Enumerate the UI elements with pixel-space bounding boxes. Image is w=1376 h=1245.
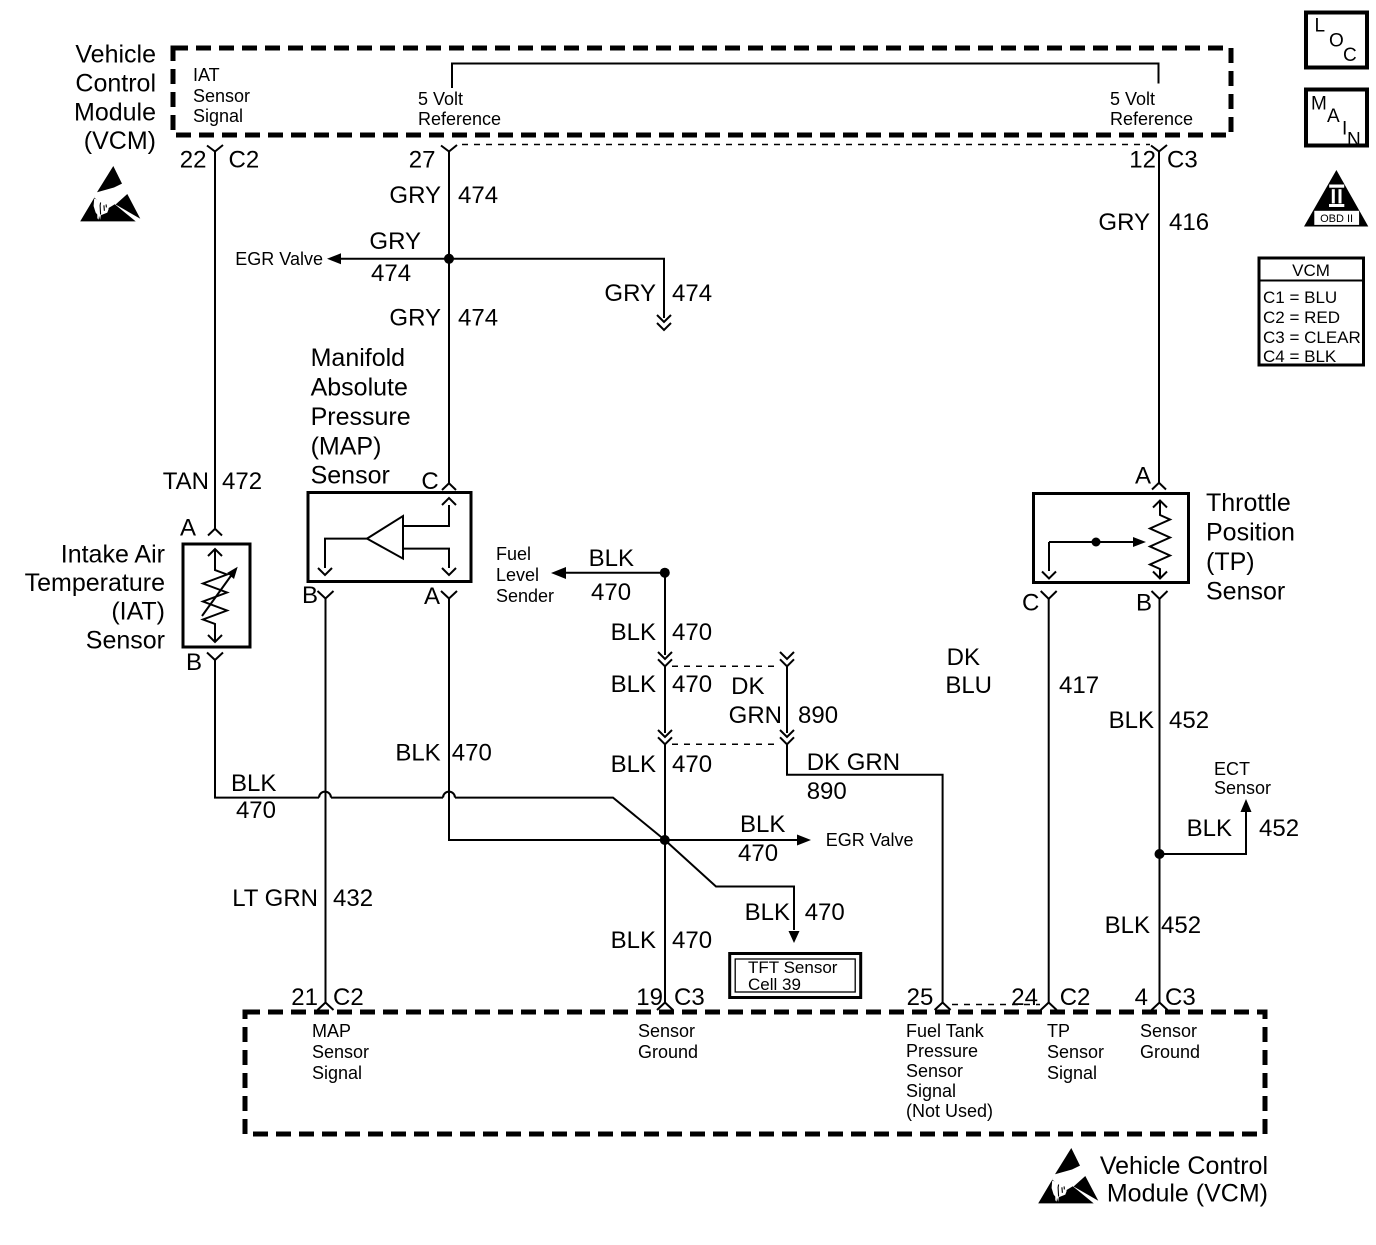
svg-text:O: O bbox=[1329, 31, 1344, 52]
svg-text:GRY: GRY bbox=[604, 280, 656, 307]
svg-text:C3: C3 bbox=[674, 984, 705, 1011]
svg-text:21: 21 bbox=[291, 984, 318, 1011]
svg-text:A: A bbox=[424, 583, 440, 610]
svg-text:19: 19 bbox=[636, 984, 663, 1011]
svg-text:Sensor: Sensor bbox=[1206, 578, 1285, 606]
svg-text:Vehicle: Vehicle bbox=[75, 41, 156, 69]
svg-text:C: C bbox=[421, 468, 438, 495]
svg-text:BLK: BLK bbox=[745, 899, 790, 926]
svg-text:417: 417 bbox=[1059, 672, 1099, 699]
svg-text:C3 = CLEAR: C3 = CLEAR bbox=[1263, 328, 1361, 347]
svg-text:GRY: GRY bbox=[369, 228, 421, 255]
svg-text:BLK: BLK bbox=[231, 770, 276, 797]
svg-text:432: 432 bbox=[333, 885, 373, 912]
svg-text:OBD II: OBD II bbox=[1320, 213, 1353, 225]
svg-text:Pressure: Pressure bbox=[311, 403, 411, 431]
svg-text:470: 470 bbox=[452, 740, 492, 767]
svg-text:416: 416 bbox=[1169, 209, 1209, 236]
svg-text:890: 890 bbox=[807, 778, 847, 805]
svg-text:C1 = BLU: C1 = BLU bbox=[1263, 288, 1337, 307]
svg-text:27: 27 bbox=[409, 147, 436, 174]
svg-text:DK: DK bbox=[731, 673, 764, 700]
svg-text:LT GRN: LT GRN bbox=[232, 885, 318, 912]
svg-text:(Not Used): (Not Used) bbox=[906, 1101, 993, 1121]
svg-text:B: B bbox=[1136, 590, 1152, 617]
svg-text:Sensor: Sensor bbox=[1214, 778, 1271, 798]
svg-text:L: L bbox=[1315, 16, 1326, 37]
svg-text:BLK: BLK bbox=[1109, 707, 1154, 734]
svg-text:IAT: IAT bbox=[193, 65, 220, 85]
svg-text:A: A bbox=[1135, 463, 1151, 490]
svg-text:GRY: GRY bbox=[389, 182, 441, 209]
svg-text:470: 470 bbox=[672, 927, 712, 954]
svg-text:470: 470 bbox=[738, 840, 778, 867]
svg-text:(TP): (TP) bbox=[1206, 548, 1255, 576]
svg-text:470: 470 bbox=[805, 899, 845, 926]
svg-text:452: 452 bbox=[1169, 707, 1209, 734]
svg-text:Sensor: Sensor bbox=[311, 462, 390, 490]
svg-text:BLK: BLK bbox=[611, 619, 656, 646]
svg-text:12: 12 bbox=[1129, 147, 1156, 174]
svg-text:Reference: Reference bbox=[418, 109, 501, 129]
svg-text:Module (VCM): Module (VCM) bbox=[1107, 1180, 1268, 1208]
svg-text:22: 22 bbox=[180, 147, 207, 174]
svg-text:Module: Module bbox=[74, 99, 156, 127]
svg-text:Fuel: Fuel bbox=[496, 544, 531, 564]
svg-text:EGR Valve: EGR Valve bbox=[826, 830, 914, 850]
svg-text:Temperature: Temperature bbox=[25, 569, 165, 597]
svg-text:Sensor: Sensor bbox=[312, 1042, 369, 1062]
svg-text:Sender: Sender bbox=[496, 586, 554, 606]
svg-text:C: C bbox=[1343, 45, 1357, 66]
svg-text:BLK: BLK bbox=[611, 751, 656, 778]
svg-text:Signal: Signal bbox=[906, 1081, 956, 1101]
svg-text:VCM: VCM bbox=[1292, 261, 1330, 280]
svg-text:BLK: BLK bbox=[740, 811, 785, 838]
svg-text:GRY: GRY bbox=[389, 304, 441, 331]
svg-text:Position: Position bbox=[1206, 519, 1295, 547]
svg-text:Cell 39: Cell 39 bbox=[748, 975, 801, 994]
svg-text:C: C bbox=[1022, 590, 1039, 617]
svg-text:DK: DK bbox=[947, 644, 980, 671]
svg-text:TP: TP bbox=[1047, 1021, 1070, 1041]
svg-text:Level: Level bbox=[496, 565, 539, 585]
svg-text:GRN: GRN bbox=[729, 702, 782, 729]
svg-text:474: 474 bbox=[371, 260, 411, 287]
svg-text:Absolute: Absolute bbox=[311, 374, 408, 402]
svg-text:Pressure: Pressure bbox=[906, 1041, 978, 1061]
svg-text:Sensor: Sensor bbox=[193, 86, 250, 106]
svg-text:Manifold: Manifold bbox=[311, 344, 406, 372]
svg-text:5 Volt: 5 Volt bbox=[418, 89, 463, 109]
svg-text:Sensor: Sensor bbox=[638, 1021, 695, 1041]
svg-text:C3: C3 bbox=[1165, 984, 1196, 1011]
svg-text:5 Volt: 5 Volt bbox=[1110, 89, 1155, 109]
svg-text:4: 4 bbox=[1135, 984, 1148, 1011]
svg-text:C2: C2 bbox=[229, 147, 260, 174]
svg-text:890: 890 bbox=[798, 702, 838, 729]
svg-text:N: N bbox=[1347, 130, 1361, 151]
svg-text:470: 470 bbox=[672, 751, 712, 778]
svg-text:25: 25 bbox=[907, 984, 934, 1011]
svg-text:474: 474 bbox=[672, 280, 712, 307]
svg-text:M: M bbox=[1311, 94, 1327, 115]
svg-text:BLK: BLK bbox=[589, 545, 634, 572]
svg-text:Sensor: Sensor bbox=[906, 1061, 963, 1081]
svg-text:470: 470 bbox=[672, 619, 712, 646]
svg-text:B: B bbox=[186, 649, 202, 676]
svg-text:ECT: ECT bbox=[1214, 759, 1250, 779]
svg-text:Control: Control bbox=[75, 70, 156, 98]
svg-text:C4 = BLK: C4 = BLK bbox=[1263, 347, 1337, 366]
svg-text:Intake Air: Intake Air bbox=[61, 541, 165, 569]
svg-text:Signal: Signal bbox=[1047, 1063, 1097, 1083]
svg-text:C2: C2 bbox=[1060, 984, 1091, 1011]
svg-text:470: 470 bbox=[672, 671, 712, 698]
svg-text:A: A bbox=[180, 515, 196, 542]
svg-text:Signal: Signal bbox=[193, 106, 243, 126]
svg-text:(VCM): (VCM) bbox=[84, 127, 156, 155]
svg-text:BLK: BLK bbox=[1105, 912, 1150, 939]
svg-text:Ground: Ground bbox=[638, 1042, 698, 1062]
svg-text:C2: C2 bbox=[333, 984, 364, 1011]
svg-text:Sensor: Sensor bbox=[1140, 1021, 1197, 1041]
svg-text:BLK: BLK bbox=[611, 927, 656, 954]
svg-text:B: B bbox=[302, 582, 318, 609]
svg-text:GRY: GRY bbox=[1098, 209, 1150, 236]
svg-text:(MAP): (MAP) bbox=[311, 433, 382, 461]
svg-text:470: 470 bbox=[591, 579, 631, 606]
svg-text:474: 474 bbox=[458, 304, 498, 331]
svg-text:Sensor: Sensor bbox=[1047, 1042, 1104, 1062]
svg-text:C3: C3 bbox=[1167, 147, 1198, 174]
svg-text:A: A bbox=[1327, 106, 1340, 127]
svg-text:Sensor: Sensor bbox=[86, 627, 165, 655]
svg-text:474: 474 bbox=[458, 182, 498, 209]
svg-text:472: 472 bbox=[222, 468, 262, 495]
svg-text:TAN: TAN bbox=[163, 468, 209, 495]
svg-text:C2 = RED: C2 = RED bbox=[1263, 308, 1340, 327]
svg-text:MAP: MAP bbox=[312, 1021, 351, 1041]
svg-text:BLU: BLU bbox=[945, 672, 992, 699]
svg-text:BLK: BLK bbox=[1187, 815, 1232, 842]
svg-text:452: 452 bbox=[1161, 912, 1201, 939]
svg-text:452: 452 bbox=[1259, 815, 1299, 842]
svg-text:470: 470 bbox=[236, 797, 276, 824]
svg-text:(IAT): (IAT) bbox=[111, 598, 165, 626]
svg-text:Signal: Signal bbox=[312, 1063, 362, 1083]
svg-text:Ground: Ground bbox=[1140, 1042, 1200, 1062]
svg-text:DK GRN: DK GRN bbox=[807, 749, 900, 776]
svg-text:Fuel Tank: Fuel Tank bbox=[906, 1021, 985, 1041]
svg-text:Throttle: Throttle bbox=[1206, 489, 1291, 517]
svg-text:Vehicle Control: Vehicle Control bbox=[1100, 1152, 1268, 1180]
svg-text:Reference: Reference bbox=[1110, 109, 1193, 129]
svg-text:24: 24 bbox=[1011, 984, 1038, 1011]
svg-text:BLK: BLK bbox=[611, 671, 656, 698]
svg-text:EGR Valve: EGR Valve bbox=[235, 249, 323, 269]
svg-text:BLK: BLK bbox=[395, 740, 440, 767]
